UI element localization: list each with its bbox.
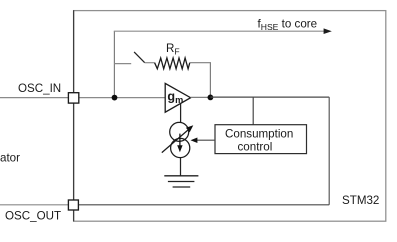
switch blade (RF bypass switch)	[134, 52, 145, 63]
wire fHSE horizontal	[114, 30, 325, 32]
wire loop right vertical	[328, 97, 330, 205]
current source lower circle	[171, 138, 190, 157]
current source direction arrow	[179, 134, 181, 147]
wire consumption control to current source	[197, 139, 216, 141]
pin OSC_OUT	[68, 200, 78, 210]
wire switch to RF	[145, 62, 155, 64]
svg-text:control: control	[238, 141, 273, 154]
OSC_IN external wire	[0, 97, 68, 99]
wire amp bias to current source	[180, 104, 182, 123]
ground	[164, 175, 198, 177]
wire output to loop right	[210, 96, 329, 98]
OSC_OUT external wire	[0, 204, 68, 206]
wire consumption control top stub	[252, 97, 254, 125]
current source variable arrow	[162, 129, 190, 153]
pin OSC_IN	[68, 93, 78, 103]
resistor RF zigzag	[155, 58, 190, 69]
wire fHSE tap vertical	[113, 31, 115, 97]
wire RF branch stub	[114, 63, 131, 65]
svg-text:Resonator: Resonator	[0, 152, 20, 165]
wire RF to output node	[190, 63, 211, 98]
svg-text:STM32: STM32	[342, 194, 379, 207]
wire OSC_OUT internal	[79, 204, 329, 206]
consumption control arrowhead	[191, 138, 198, 144]
node A junction dot (input)	[112, 95, 118, 101]
STM32 block outline	[74, 11, 386, 222]
svg-text:OSC_OUT: OSC_OUT	[5, 210, 61, 223]
current source upper circle	[170, 122, 189, 141]
STM32 left border (pin edge, darker)	[73, 10, 75, 221]
wire amp output to node B	[191, 96, 211, 98]
wire OSC_IN pin to amplifier input	[79, 97, 165, 99]
svg-text:OSC_IN: OSC_IN	[18, 82, 61, 95]
consumption control box	[215, 125, 307, 154]
fHSE arrowhead	[324, 28, 332, 34]
wire current source to ground	[180, 157, 182, 175]
op-amp U1 gm transconductance amplifier	[165, 83, 190, 112]
svg-text:Consumption: Consumption	[225, 127, 293, 140]
node B junction dot (output)	[208, 95, 214, 101]
